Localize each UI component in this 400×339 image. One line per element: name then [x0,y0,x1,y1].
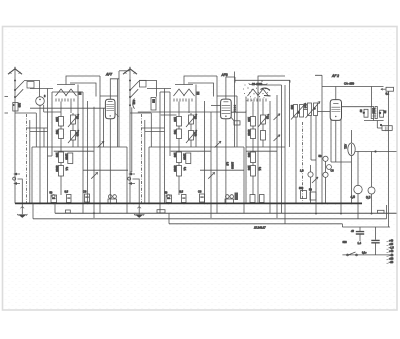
electrolytic C15 [308,172,313,177]
wire horizontal y131.5 mid [145,131,165,133]
wire vertical x388.5 [388,92,390,228]
resistor R8 [177,129,182,139]
wire bus4 left riser [168,214,170,224]
wire C15 stub [310,165,312,203]
wire horizontal y96 [100,95,118,97]
wire antenna feed y113 [15,112,36,114]
coil L2 brace [133,99,135,109]
wire vertical x244 [243,147,245,214]
speaker Lsp [380,124,392,131]
svg-text:–4B: –4B [389,254,394,257]
wire R10R11 chain [178,149,180,195]
wire chain B [72,113,74,147]
wire vertical x32 [31,147,33,203]
switch S2b [130,89,138,97]
wire pickup2 to bus [133,179,140,203]
wire vertical x36.3 [35,113,37,147]
wire horizontal y92 mid [160,91,170,93]
wire vertical x289.5 [289,80,291,147]
bus wire 1 [15,202,362,204]
svg-text:+40: +40 [389,239,394,242]
wire bus4 to PSU [341,224,343,227]
wire vertical x164.5 [164,89,166,204]
svg-text:+4B: +4B [389,250,394,253]
wire vertical x83 [82,92,84,214]
pin box V4 [234,121,240,125]
wire horizontal y147 [32,146,127,148]
variable arrow left1 [98,141,105,147]
antenna A1 [8,67,22,74]
resistor R20 [310,192,316,200]
svg-text:100: 100 [173,153,177,158]
wire vertical x170 [169,92,171,156]
svg-text:0,5: 0,5 [366,196,371,200]
wire vertical x43.7 [43,105,45,112]
resistor small between buses left [66,210,71,213]
variable arrow C6 [186,130,197,143]
tube V5 AF2 [330,100,341,121]
wire vertical x246b [245,111,247,204]
capacitor C1 [71,131,76,141]
resistor R16 [251,152,256,163]
wire C17 [357,152,359,219]
capacitor C5 on bus [108,195,117,204]
resistor small on bus2 right [378,210,385,213]
wire horizontal y147 right [246,146,285,148]
wire horizontal y162 [331,161,352,163]
wire horizontal y170 mid [200,169,244,171]
wire R16R17 chain [252,149,254,195]
wire antenna2 feed y113 [130,112,151,114]
svg-text:–1,5: –1,5 [389,247,394,250]
rectifier tube V6 [348,130,355,203]
svg-text:5000: 5000 [247,130,251,137]
wire staircase left [70,83,96,97]
svg-text:100: 100 [173,117,177,122]
capacitor dark blob mid [235,193,239,201]
wire V4 cathode to bus [225,119,227,204]
wire horizontal y131.5 [30,131,48,133]
svg-text:700: 700 [55,130,59,135]
output transformer T3 [371,87,377,119]
resistor R11 [177,166,182,177]
wire horizontal y112b mid [161,114,177,116]
PSU bottom wire [342,254,390,256]
variable arrow left2 [91,172,98,178]
junction dot T2 [313,107,316,110]
wire horizontal y170 [83,169,128,171]
svg-text:600: 600 [343,241,348,244]
wire vertical x258 [257,85,259,203]
tube V4b electrode structure [231,76,285,113]
resistor R2 [59,129,64,139]
range bracket 20-2000 [235,77,290,83]
IF transformer T2 [306,102,321,119]
wire vertical x281.5 [281,85,283,213]
variable arrow R3 [68,114,79,127]
wire vertical x52 [51,92,53,156]
switch S2a [130,81,139,90]
wire horizontal y112 [44,111,61,113]
tube V3 electrode structure [147,76,217,113]
svg-text:AF 2: AF 2 [331,74,339,78]
wire V5 to C21 [342,106,372,108]
wire horizontal y151.2 [54,150,94,152]
svg-text:300: 300 [299,187,304,190]
svg-text:100: 100 [55,117,59,122]
junction dot extra mid [183,203,185,205]
bus wire 3 [33,218,387,220]
wire horizontal y92 [52,91,83,93]
capacitor C2 on bus [51,195,57,203]
resistor R1 [59,117,64,127]
wire vertical x47.5 [47,89,49,204]
svg-text:1,4: 1,4 [358,242,362,245]
wire horizontal y156 [48,155,53,157]
wire antenna2 to bus [129,172,131,203]
ground G2 [134,203,144,218]
variable arrow R9 [186,114,197,127]
svg-text:+2B: +2B [389,257,394,260]
wire OT bottom [364,119,384,121]
wire horizontal y160 r [311,159,316,161]
electrolytic C17 [354,185,362,193]
resistor R7 [177,117,182,127]
wire bus3 right riser [386,205,388,219]
svg-text:5000: 5000 [55,166,59,173]
resistor R3 [71,115,76,124]
wire vertical x204.5 [204,101,206,203]
capacitor C0 antenna series [13,103,18,112]
junction dot bus2 [93,212,95,214]
svg-text:AF3: AF3 [221,73,228,77]
margin tick a [5,96,9,98]
tube V1 electrode structure [30,76,100,113]
svg-text:CS: CS [83,191,87,194]
wire V5 cathode [335,120,337,162]
variable arrow mid1 [215,141,222,147]
wire vertical x237 [236,96,238,147]
node dots on A2 lead [129,80,131,99]
electrolytic C14 [323,156,328,161]
resistor R12 [186,153,191,164]
wire staircase mid [188,83,214,97]
wire V5 top [335,87,337,100]
capacitor C12 on bus [250,195,255,203]
svg-text:1,0: 1,0 [300,170,304,173]
svg-text:0,5: 0,5 [226,162,229,166]
svg-text:250: 250 [247,166,251,171]
gang linkage dash-dot 2 [141,114,143,203]
capacitor C11 [261,131,266,141]
capacitor C6 [189,131,194,141]
wire vertical x29.8 [29,120,31,203]
wire vertical x103.5 [103,108,105,147]
wire vertical x311 [310,116,312,161]
junction dots right [315,203,372,215]
variable arrow rb1 [312,177,318,183]
svg-text:100: 100 [247,117,251,122]
capacitor grid blob left [79,92,82,96]
variable arrow mid2 [208,172,215,178]
wire C14-C16 [325,161,327,203]
resistor R9 [189,115,194,124]
IF transformer T1 [291,103,306,120]
wire vertical x316 [315,116,317,214]
resistor R5 [59,166,64,177]
capacitor C10 on bus [225,195,234,204]
wire R4R5 chain [60,149,62,195]
wire horizontal y151.2 mid [171,150,211,152]
variable arrow rm1 [274,114,281,120]
resistor R15 [261,115,266,124]
wire S2 to coil [139,81,157,97]
bus wire 4 [169,223,342,225]
wire vertical x217 [216,76,218,214]
wire vertical x211 [210,112,212,218]
switch S3 [347,252,358,256]
wire speaker [377,121,382,129]
wire antenna1 to bus [14,172,16,203]
resistor small between buses [157,210,165,213]
resistor R17 [251,166,256,177]
variable arrow C1 [68,130,79,143]
resistor R4 [59,152,64,163]
marks in bus boxes left [52,197,89,200]
PSU terminal arrows [387,242,389,264]
wire grid feed V4 [138,111,221,113]
tube V4 [221,99,232,119]
wire vertical x322 [315,75,322,203]
capacitor C21 [364,109,368,117]
wire V4 grid2 [211,105,220,107]
wire V2 cathode to bus [109,119,111,204]
capacitor C3 on bus [67,195,72,203]
wire vertical x341 [340,119,342,214]
pen mark 2 [264,95,271,97]
resistor R13 [251,117,256,127]
wire y86.5 [322,86,384,88]
capacitor grid blob mid [197,92,200,96]
PSU terminal labels [389,239,394,264]
svg-text:CA–250: CA–250 [344,82,355,86]
wire grid feed V2 [30,107,105,109]
resistor R18 top right [381,87,394,91]
svg-text:100: 100 [55,153,59,158]
svg-text:5000: 5000 [173,166,177,173]
wire horizontal y85 rm [258,84,282,86]
wire vertical x44 [43,128,45,147]
gang linkage dash-dot [26,114,28,203]
capacitor C4 on bus [85,194,90,202]
capacitor C8 on bus [182,195,187,203]
variable arrow rm2 [274,135,281,141]
wire bus3 left riser [32,203,34,218]
wire antenna A2 down lead [129,70,131,173]
resistor R6 [68,153,73,164]
wire vertical x100 [99,76,101,214]
svg-text:–2B: –2B [389,261,394,264]
switch block SB1 [27,82,34,89]
svg-text:0,1÷: 0,1÷ [362,252,367,255]
stamp dot cloud [243,83,270,102]
marks in bus boxes mid [167,197,204,200]
electrolytic C14b [327,165,332,170]
wire pickup to bus [18,179,23,203]
wire horizontal y147 mid [149,146,244,148]
svg-text:0,5: 0,5 [180,191,184,194]
antenna A2 [123,67,137,74]
node dots on A1 lead [14,80,16,99]
svg-text:300: 300 [247,153,251,158]
wire horizontal y128 mid [142,127,165,129]
wire L2 to bus [130,107,132,172]
wire vertical x127 [126,147,128,214]
wire V4 top cap [226,77,235,99]
junction dots bus1 mid [133,203,228,205]
coil L1 [36,97,45,106]
capacitor C19 [356,227,364,241]
wire vertical x270 [269,101,271,214]
pickup TA2 terminals [128,173,135,185]
wire vertical x119 [118,71,120,147]
wire vertical x94 [93,107,95,218]
electrolytic C16 [323,172,328,177]
switch S1a [15,81,24,90]
pickup TA terminals [13,173,20,185]
coil L3 [151,98,156,111]
capacitor C13 on bus [260,195,265,203]
switch block SB2 [140,80,147,87]
wire vertical x296 [295,117,297,203]
resistor R14 [251,129,256,139]
switch S1b [15,89,23,97]
wire chain B3 [262,113,264,147]
svg-text:4,0: 4,0 [351,195,356,199]
capacitor C20 [371,227,379,255]
wire horizontal y128 [27,127,48,129]
resistor R10 [177,152,182,163]
wire chain B2 [190,113,192,147]
wire antenna A1 down lead [14,70,16,173]
wire R1R2 chain [60,113,62,149]
wire V2 top cap [110,79,119,99]
wire vertical x160b [159,92,161,214]
wire R7R8 chain [178,113,180,149]
wire vertical x277 [276,95,278,218]
wire S1 to coil [24,81,40,97]
svg-text:CS: CS [198,191,202,194]
wire vertical x78 [77,85,79,148]
wire vertical x144.8 [144,120,146,203]
wire vertical x87.5 [87,101,89,203]
wire horizontal y70.5 to antenna2 [119,70,130,72]
svg-text:1500: 1500 [65,154,69,161]
capacitor C22 [380,110,384,117]
wire R13R14 chain [252,113,254,149]
wire horizontal y96 mid [217,95,237,97]
svg-text:1500: 1500 [183,154,187,161]
wire vertical x234.5 [234,72,236,148]
svg-text:27.148.17: 27.148.17 [253,226,266,230]
wire vertical x285 [284,85,286,224]
svg-text:AF7: AF7 [105,73,112,77]
wire vertical x331 [330,119,332,162]
wire T1-T2 [304,109,308,111]
resistor R19 [301,191,307,199]
svg-text:+15: +15 [389,243,394,246]
wire vertical x149 [148,147,150,203]
wire vertical x196 [195,85,197,148]
margin tick b [5,112,9,114]
wire bus2 riser [54,203,56,213]
gang linkage dash-dot 3 [302,122,304,203]
junction dot T1 [297,111,300,114]
svg-text:0,5: 0,5 [65,191,69,194]
wire horizontal y151.2 right [246,150,277,152]
wire y151.5 right [355,151,396,153]
wire T2 to V5 [318,111,331,113]
wire L1 to bus [39,105,41,203]
bus wire 2 [55,212,397,214]
svg-text:5000: 5000 [372,108,375,114]
ground G1 [17,203,27,218]
electrolytic C18 [368,187,375,194]
PSU top wire [342,226,390,228]
svg-text:0,1: 0,1 [386,93,390,96]
pen mark 1 [261,88,270,90]
svg-text:700: 700 [173,130,177,135]
junction dot x375.5 [374,150,376,152]
variable arrow R15 [258,114,269,127]
wire C18 [371,152,373,214]
wire vertical x117.5 [117,79,119,147]
wire vertical x151.3 [150,113,152,147]
capacitor C9 on bus [200,194,205,202]
svg-text:10000: 10000 [230,162,233,170]
tube V2 AF7 [105,99,118,119]
capacitor C7 on bus [166,195,172,203]
junction dots bus1 left [39,203,111,205]
